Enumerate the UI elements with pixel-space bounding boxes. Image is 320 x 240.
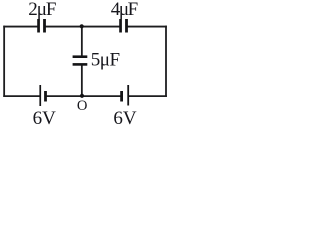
- svg-text:4μF: 4μF: [111, 0, 138, 20]
- capacitor C3 5uF top plate: [73, 55, 88, 58]
- battery B1 positive long plate: [39, 85, 41, 106]
- wire left side: [3, 26, 5, 97]
- svg-text:2μF: 2μF: [28, 0, 56, 20]
- battery B2 negative short plate: [120, 91, 123, 102]
- svg-text:5μF: 5μF: [91, 49, 120, 70]
- capacitor C2 4uF right plate: [125, 19, 128, 33]
- capacitor C2 4uF left plate: [119, 19, 122, 33]
- capacitor C1 2uF right plate: [43, 19, 46, 33]
- junction dot node O: [80, 94, 84, 98]
- wire top-right segment: [127, 26, 167, 28]
- wire top-middle segment: [45, 26, 121, 28]
- wire bottom-middle segment: [46, 95, 121, 97]
- wire bottom-left segment: [3, 95, 39, 97]
- capacitor C1 2uF left plate: [37, 19, 40, 33]
- svg-text:6V: 6V: [113, 108, 136, 126]
- battery B1 negative short plate: [44, 91, 47, 102]
- capacitor C3 5uF bottom plate: [73, 63, 88, 66]
- svg-text:O: O: [77, 98, 88, 114]
- battery B2 positive long plate: [127, 85, 129, 106]
- wire middle branch lower: [81, 65, 83, 97]
- svg-text:6V: 6V: [33, 108, 57, 126]
- wire right side: [165, 26, 167, 97]
- wire middle branch upper: [81, 27, 83, 57]
- junction dot top of middle branch: [80, 24, 84, 28]
- wire top-left segment: [3, 26, 38, 28]
- wire bottom-right segment: [128, 95, 167, 97]
